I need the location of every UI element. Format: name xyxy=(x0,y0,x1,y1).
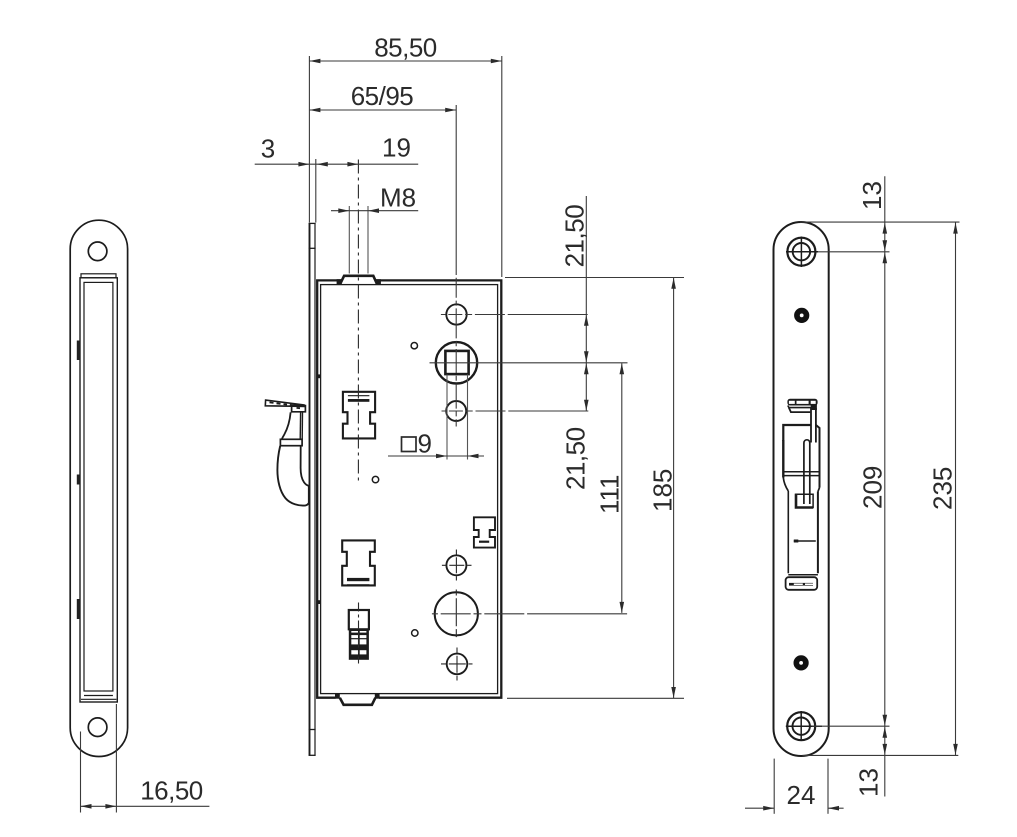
latch bottom line xyxy=(788,574,818,576)
latch bracket lower step xyxy=(788,406,811,408)
faceplate side strip back line xyxy=(314,223,316,756)
hook bolt serration dashes xyxy=(270,402,301,408)
svg-text:111: 111 xyxy=(595,474,625,514)
left slot weld tick 2 xyxy=(77,475,81,485)
hook bolt tip face xyxy=(308,486,310,503)
pin hole A xyxy=(411,343,417,349)
svg-text:21,50: 21,50 xyxy=(560,205,590,268)
case left edge notch mark 2 xyxy=(317,600,321,604)
center line M8 axis xyxy=(357,160,359,482)
latch bottom bracket xyxy=(786,577,818,590)
latch mid band xyxy=(784,471,820,473)
dimension 185 xyxy=(673,278,675,698)
left slot weld tick 3 xyxy=(77,599,81,619)
mid small circle xyxy=(446,555,466,575)
lock case outer edge right+bottom-right xyxy=(376,280,501,697)
case top boss xyxy=(341,276,376,283)
left faceplate slot outer xyxy=(80,278,117,702)
svg-text:85,50: 85,50 xyxy=(374,33,437,63)
cylinder circle xyxy=(435,592,478,635)
top hole circle xyxy=(446,304,466,324)
svg-text:185: 185 xyxy=(648,469,678,512)
left faceplate bottom screw hole xyxy=(88,718,107,737)
lower H cutout xyxy=(342,540,375,585)
latch slot top edge xyxy=(783,425,811,441)
svg-text:9: 9 xyxy=(418,429,432,459)
case top boss step right xyxy=(375,279,381,285)
pin hole B xyxy=(372,476,378,482)
right faceplate outline xyxy=(774,222,829,756)
right top screw xyxy=(787,238,815,266)
hook bolt head block xyxy=(292,405,306,412)
svg-text:13: 13 xyxy=(857,181,887,210)
dimension 16,50 line xyxy=(81,805,210,807)
hook bolt body outer xyxy=(277,446,308,506)
faceplate side strip front line xyxy=(309,223,311,756)
left faceplate slot inner xyxy=(84,282,113,691)
case top boss step left xyxy=(337,279,342,285)
dimension square 9 xyxy=(446,375,448,460)
dimension 85,50 xyxy=(308,56,310,223)
hook bolt body inner xyxy=(301,446,309,486)
right view dimension extension lines xyxy=(800,221,960,223)
right plate pin hole top xyxy=(794,308,809,323)
dimension 111 xyxy=(621,363,623,613)
latch slot right edge xyxy=(816,425,820,488)
follower circle xyxy=(436,342,477,383)
left faceplate top screw hole xyxy=(88,242,107,261)
dimension 16,50 extension lines xyxy=(80,732,82,813)
svg-text:209: 209 xyxy=(858,466,888,509)
svg-text:16,50: 16,50 xyxy=(140,776,203,806)
right side extension lines of case xyxy=(505,277,684,279)
dimension 13 top / 209 / 13 bottom line xyxy=(884,176,886,796)
dimension 3 and 19 xyxy=(255,163,419,165)
lock case inner edge xyxy=(321,285,498,694)
svg-text:21,50: 21,50 xyxy=(561,427,591,490)
bolt stack xyxy=(349,629,369,660)
M8 thread lines xyxy=(348,206,350,274)
bottom small circle xyxy=(447,654,468,675)
left faceplate slot cap xyxy=(81,274,116,278)
follower square 9mm xyxy=(445,351,468,374)
svg-text:3: 3 xyxy=(261,134,275,164)
hook bolt serrated finger xyxy=(265,400,304,406)
dimension 24 xyxy=(773,759,775,814)
latch vertical bar upper xyxy=(811,405,817,411)
latch pinch right xyxy=(818,488,820,492)
dimension 21,50 upper xyxy=(585,196,587,411)
case bottom tab xyxy=(340,698,376,705)
small clip cutout right xyxy=(474,517,495,547)
left slot weld tick 1 xyxy=(77,341,81,361)
svg-text:19: 19 xyxy=(382,133,411,163)
hook bolt collar band xyxy=(280,439,302,445)
latch slot left edge xyxy=(782,440,784,478)
latch inner pin xyxy=(804,440,810,504)
svg-text:24: 24 xyxy=(787,780,816,810)
lower hole circle xyxy=(446,401,466,421)
case bottom tab step left xyxy=(335,693,340,698)
dimension M8 xyxy=(331,210,418,212)
latch lower tick line xyxy=(794,540,816,542)
latch lower housing xyxy=(787,491,789,573)
hook bolt neck xyxy=(282,412,291,439)
left faceplate slot bottom lines xyxy=(84,695,113,697)
left faceplate outline xyxy=(70,220,127,756)
latch top bracket xyxy=(787,399,817,406)
latch pinch left xyxy=(783,478,788,492)
bolt stack centerline xyxy=(358,603,360,664)
svg-text:M8: M8 xyxy=(380,183,416,213)
svg-text:65/95: 65/95 xyxy=(351,81,414,111)
case left edge notch mark 1 xyxy=(317,374,321,378)
svg-text:13: 13 xyxy=(854,768,884,797)
dimension 65/95 xyxy=(309,109,456,111)
upper H cutout xyxy=(343,392,375,439)
case bottom tab step right xyxy=(375,693,380,698)
svg-text:235: 235 xyxy=(928,467,958,510)
latch small square xyxy=(796,494,813,508)
lock case outer edge left+bottom-left xyxy=(317,280,341,697)
right plate pin hole bottom xyxy=(794,655,809,670)
dimension 235 xyxy=(955,222,957,755)
pin hole C xyxy=(412,630,418,636)
faceplate strip joints xyxy=(309,222,316,224)
right bottom screw xyxy=(787,712,815,740)
